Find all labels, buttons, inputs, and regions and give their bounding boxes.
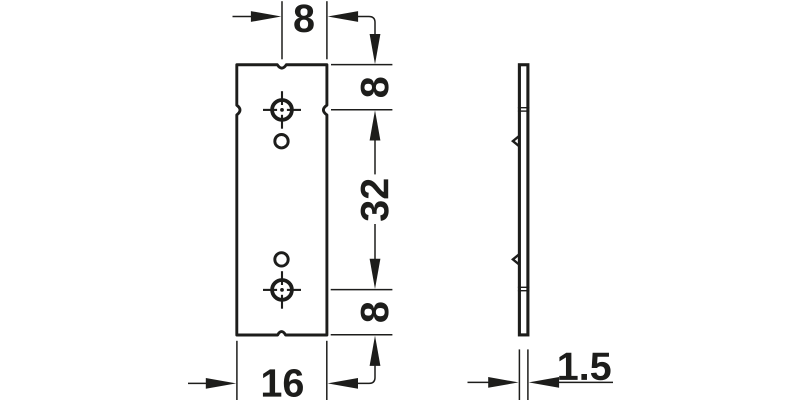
side view dimple bottom xyxy=(513,254,520,265)
dimension 32: bottom arrow xyxy=(374,224,376,259)
right dimension 8 (bottom): up arrow with elbow to 16-line xyxy=(370,336,381,366)
dimension 32: label xyxy=(361,179,389,220)
dimension 1.5: right arrow xyxy=(529,377,559,388)
top dimension 8: extension lines xyxy=(282,1,327,59)
bottom dimension 16: label xyxy=(263,369,303,397)
large hole bottom xyxy=(272,280,292,300)
dimension 1.5: extension lines xyxy=(519,349,528,400)
bottom dimension 16: left arrow xyxy=(188,382,207,384)
top dimension 8: right arrow with elbow down xyxy=(328,11,358,22)
side view plate xyxy=(519,65,528,335)
right dimension 8 (top): label xyxy=(361,78,389,97)
side view dimple top xyxy=(513,136,520,147)
top dimension 8: left arrow xyxy=(233,16,252,18)
top dimension 8: label xyxy=(294,4,313,32)
crosshair top hole xyxy=(263,91,301,129)
right side extension lines xyxy=(331,65,393,335)
crosshair bottom hole xyxy=(263,271,301,309)
plate outline (front view) with stamped notches xyxy=(237,65,327,335)
dimension 32: top arrow xyxy=(370,110,381,140)
small hole top xyxy=(275,135,288,148)
small hole bottom xyxy=(275,253,288,266)
right dimension 8 (bottom): label xyxy=(361,302,389,321)
side view notch tick lines bottom xyxy=(518,287,530,290)
bottom dimension 16: extension lines xyxy=(237,341,327,400)
large hole top xyxy=(272,100,292,120)
dimension 1.5: label xyxy=(559,353,610,381)
dimension 1.5: left arrow xyxy=(468,381,489,383)
side view notch tick lines top xyxy=(518,108,530,111)
